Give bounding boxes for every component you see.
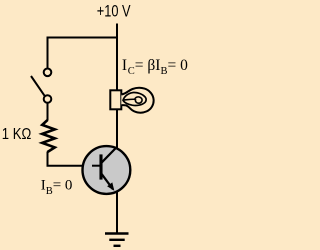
svg-text:1 KΩ: 1 KΩ [2, 126, 32, 143]
svg-text:+10 V: +10 V [97, 2, 131, 20]
